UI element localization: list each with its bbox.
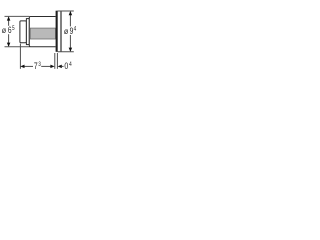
- extension line top-left (body top, ø65): [5, 15, 30, 17]
- svg-text:ø: ø: [64, 26, 68, 36]
- extension line bottom: plate front face: [54, 53, 56, 69]
- gray band (sectioned seal inside body): [30, 28, 55, 39]
- svg-text:7: 7: [34, 61, 38, 71]
- extension line bottom-right (plate bottom, ø94): [58, 51, 74, 53]
- svg-text:0: 0: [64, 61, 68, 71]
- svg-text:3: 3: [38, 61, 41, 68]
- extension line bottom: plate rear face: [56, 53, 58, 69]
- body (cylinder, ø65): [29, 17, 55, 47]
- dimension line left (vertical, broken by text): [8, 17, 10, 26]
- technical dimension drawing: push-button with cover plate, cross-section: [0, 0, 80, 80]
- extension line bottom: cap front face: [19, 44, 21, 69]
- arrow left (73 dim): [20, 65, 24, 69]
- arrow up (right dim): [69, 11, 73, 15]
- button cap (front): [20, 21, 27, 43]
- tail line of 04 dim: [61, 65, 63, 67]
- extension line bottom-left (body bottom, ø65): [5, 46, 30, 48]
- arrow pointing left at plate rear (04 dim): [58, 65, 62, 69]
- bezel ring (between cap and body): [26, 19, 29, 45]
- cover plate (ø94, thick bar): [56, 11, 58, 52]
- arrow down (right dim): [69, 48, 73, 52]
- arrow right (73 dim): [50, 65, 54, 69]
- dimension line bottom 73 (horizontal, broken by text): [24, 65, 33, 67]
- extension line top-right (plate top, ø94): [58, 10, 74, 12]
- arrow up (left dim): [7, 16, 11, 20]
- rear plate line B: [60, 11, 62, 52]
- svg-text:4: 4: [69, 61, 72, 68]
- dimension line right (vertical, broken by text): [69, 12, 71, 27]
- arrow down (left dim): [7, 43, 11, 47]
- svg-text:5: 5: [12, 25, 15, 32]
- svg-text:4: 4: [74, 26, 77, 33]
- svg-text:ø: ø: [2, 25, 6, 35]
